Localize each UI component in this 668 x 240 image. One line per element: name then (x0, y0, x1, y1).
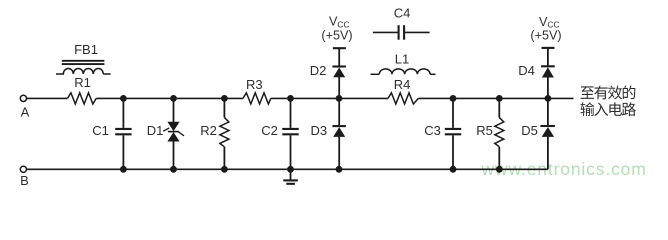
diode D2 (310, 63, 346, 98)
svg-text:D1: D1 (147, 123, 164, 138)
svg-text:D3: D3 (310, 123, 327, 138)
resistor R3 (243, 77, 271, 104)
node: bottom rail junction at C1 (120, 166, 127, 173)
ferrite bead FB1 (56, 42, 111, 74)
svg-text:R4: R4 (394, 77, 411, 92)
TVS diode D1 (bidirectional zener) (147, 98, 184, 169)
terminal B (20, 166, 29, 188)
wire: bottom rail (27, 168, 548, 170)
watermark www.entronics.com (481, 159, 647, 179)
node: bottom rail junction at D3 (336, 166, 343, 173)
resistor R2 (200, 98, 229, 169)
svg-text:R3: R3 (246, 77, 263, 92)
inductor L1 (371, 52, 436, 75)
node: bottom rail junction at C2 (287, 166, 294, 173)
node: top rail junction at R5 (496, 95, 503, 102)
node: bottom rail junction at C3 (450, 166, 457, 173)
svg-text:(+5V): (+5V) (530, 28, 561, 42)
node: top rail junction at C2 (287, 95, 294, 102)
svg-text:FB1: FB1 (74, 42, 98, 57)
capacitor C1 (92, 98, 131, 169)
ground (283, 169, 298, 184)
node: top rail junction at D2/D3 (336, 95, 343, 102)
svg-text:R2: R2 (200, 123, 217, 138)
wire: top rail R4 to output (418, 97, 573, 99)
power VCC (+5V) left (321, 15, 352, 67)
wire: top rail A-side (27, 97, 68, 99)
diode D5 (521, 98, 555, 169)
node: top rail junction at D1 (170, 95, 177, 102)
wire: top rail R3 to R4 (271, 97, 388, 99)
node: top rail junction at C1 (120, 95, 127, 102)
node: top rail junction at D4/D5 (545, 95, 552, 102)
svg-text:D5: D5 (521, 123, 538, 138)
capacitor C4 (373, 6, 430, 40)
resistor R5 (476, 98, 504, 169)
svg-text:C4: C4 (394, 6, 411, 21)
diode D3 (310, 98, 345, 169)
terminal A (20, 95, 29, 119)
capacitor C2 (261, 98, 299, 169)
node: bottom rail junction at R5 (496, 166, 503, 173)
svg-text:D4: D4 (518, 63, 535, 78)
svg-text:L1: L1 (395, 52, 409, 67)
svg-text:D2: D2 (310, 63, 327, 78)
node: bottom rail junction at D1 (170, 166, 177, 173)
wire: top rail R1 to R3 (96, 97, 243, 99)
node: bottom rail junction at R2 (221, 166, 228, 173)
capacitor C3 (424, 98, 461, 169)
svg-text:(+5V): (+5V) (321, 28, 352, 42)
node: top rail junction at R2 (221, 95, 228, 102)
svg-text:A: A (21, 105, 30, 120)
diode D4 (518, 63, 555, 98)
power VCC (+5V) right (530, 15, 561, 67)
svg-text:C3: C3 (424, 123, 441, 138)
svg-text:C2: C2 (261, 123, 278, 138)
svg-text:B: B (20, 173, 29, 185)
node: top rail junction at C3 (450, 95, 457, 102)
svg-text:R5: R5 (476, 123, 493, 138)
svg-text:C1: C1 (92, 123, 109, 138)
annotation: to the protected input circuit (Chinese) (580, 86, 636, 117)
resistor R1 (68, 75, 97, 104)
resistor R4 (388, 77, 418, 104)
svg-text:R1: R1 (74, 75, 91, 90)
